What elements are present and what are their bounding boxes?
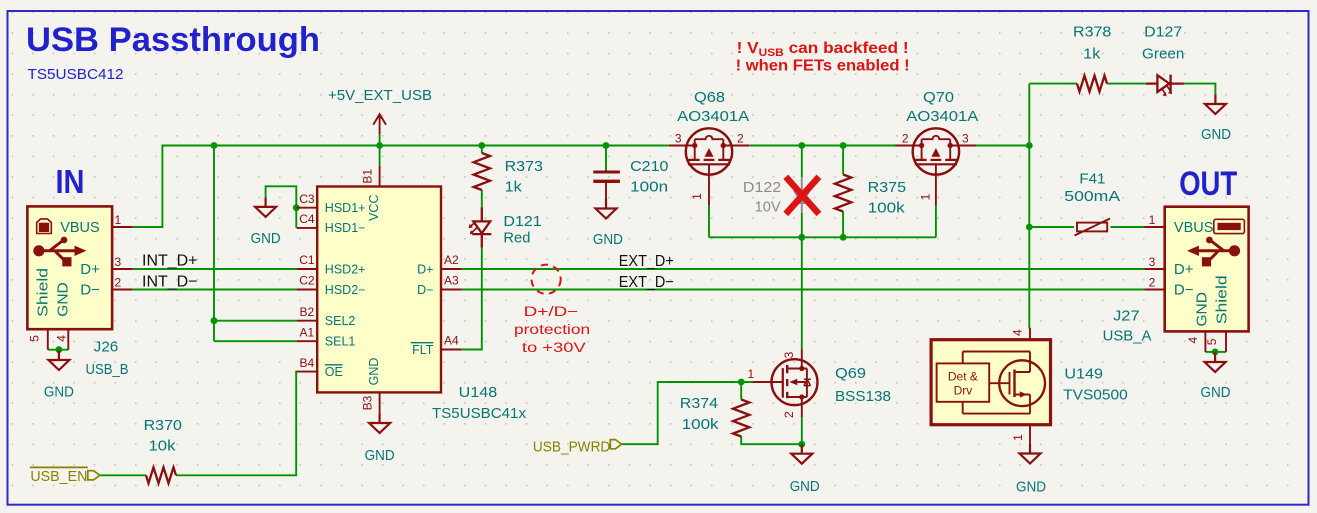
J26 pin numbers [28, 213, 122, 342]
svg-text:A4: A4 [444, 334, 459, 348]
svg-text:10k: 10k [149, 437, 177, 454]
svg-text:INT_D−: INT_D− [142, 273, 198, 290]
J26 pin names [35, 219, 101, 317]
svg-text:C3: C3 [299, 192, 315, 206]
wire USB_EN to R370 [100, 474, 146, 476]
IC U149 TVS body [931, 328, 1128, 451]
U148 pin B3 GND stub [379, 392, 381, 413]
J27 pin numbers [1149, 213, 1219, 345]
junction gate rail / R375 [840, 234, 847, 241]
svg-text:Drv: Drv [954, 384, 973, 398]
svg-text:TS5USBC41x: TS5USBC41x [432, 405, 526, 422]
svg-text:100n: 100n [630, 178, 668, 195]
svg-text:C210: C210 [630, 158, 668, 175]
wire F41 to J27 VBUS [1111, 226, 1145, 228]
svg-text:3: 3 [962, 132, 969, 146]
red note D+/D- protection to +30V [514, 304, 590, 355]
wire INT_D+ [133, 268, 297, 270]
svg-text:4: 4 [1186, 337, 1200, 344]
svg-text:3: 3 [675, 132, 682, 146]
svg-text:SEL2: SEL2 [325, 314, 356, 328]
hier label USB_PWRD [533, 438, 622, 455]
wire R374 bottom to source [741, 436, 802, 444]
J26 pin stubs [112, 227, 133, 290]
wire D122 bottom to rail [801, 213, 803, 237]
transistor Q69 [748, 349, 892, 418]
svg-text:Red: Red [503, 229, 530, 246]
svg-text:EXT_D−: EXT_D− [619, 274, 674, 291]
U148 GND symbol below B3 [369, 414, 390, 434]
svg-text:TVS0500: TVS0500 [1063, 386, 1128, 403]
resistor R378 [1073, 24, 1111, 92]
svg-text:2: 2 [902, 132, 909, 146]
U148 OE overline [325, 364, 343, 366]
svg-text:AO3401A: AO3401A [677, 108, 749, 125]
svg-text:Q70: Q70 [923, 89, 954, 106]
svg-text:GND: GND [1201, 126, 1231, 143]
power symbol +5V_EXT_USB [328, 87, 432, 135]
svg-text:500mA: 500mA [1064, 188, 1120, 205]
wire to SEL2 pin B2 [214, 320, 297, 322]
svg-text:Shield: Shield [35, 268, 52, 317]
svg-text:D+: D+ [1174, 261, 1194, 278]
svg-text:GND: GND [44, 384, 74, 401]
junction VBUS rail / right riser [1026, 142, 1033, 149]
svg-text:GND: GND [55, 282, 72, 317]
svg-text:2: 2 [115, 276, 122, 290]
IC U148 body [317, 187, 441, 393]
svg-text:C1: C1 [299, 253, 315, 267]
wire R374 top [740, 382, 742, 400]
wire FET gate bottom rail [709, 236, 936, 238]
svg-text:1: 1 [748, 367, 755, 381]
U148 FLT overline [411, 342, 434, 344]
svg-text:U149: U149 [1064, 366, 1103, 383]
svg-text:IN: IN [56, 163, 85, 200]
diode D121 LED red [469, 207, 542, 248]
wire to SEL1 pin A1 [214, 340, 297, 342]
svg-text:U148: U148 [459, 384, 498, 401]
J27 USB trident icon mirrored [1187, 237, 1240, 267]
svg-text:100k: 100k [682, 416, 720, 433]
svg-text:4: 4 [55, 335, 69, 342]
resistor R374 [680, 395, 750, 437]
svg-text:FLT: FLT [412, 343, 434, 357]
svg-text:1k: 1k [505, 178, 523, 195]
svg-text:1: 1 [919, 193, 933, 200]
U148 pin numbers [299, 169, 459, 411]
resistor R370 [144, 417, 182, 484]
wire D127 to GND [1184, 84, 1216, 95]
svg-text:R378: R378 [1073, 24, 1111, 41]
capacitor C210 [593, 158, 668, 199]
svg-text:HSD2−: HSD2− [325, 283, 366, 297]
wire EXT_D+ [462, 268, 1145, 270]
svg-text:B1: B1 [361, 169, 375, 184]
junction SEL2 [211, 317, 218, 324]
svg-text:D127: D127 [1144, 24, 1182, 41]
GND symbol below U149 [1020, 444, 1041, 464]
svg-text:D121: D121 [503, 213, 541, 230]
svg-text:Q69: Q69 [835, 365, 866, 382]
junction Q69 gate / R374 [738, 379, 745, 386]
GND symbol near C3 C4 [255, 197, 276, 217]
svg-text:2: 2 [737, 132, 744, 146]
svg-text:GND: GND [1016, 479, 1046, 496]
svg-text:A2: A2 [444, 253, 459, 267]
svg-text:GND: GND [367, 358, 381, 386]
svg-text:F41: F41 [1079, 171, 1105, 188]
GND symbol right of D127 [1205, 95, 1226, 115]
J27 USB-A plug icon [1214, 219, 1245, 233]
J26 GND symbol [48, 351, 69, 371]
svg-text:GND: GND [251, 230, 281, 247]
svg-text:+5V_EXT_USB: +5V_EXT_USB [328, 87, 432, 104]
wire riser to fuse F41 [1029, 226, 1074, 228]
svg-text:R375: R375 [868, 179, 906, 196]
svg-text:! when FETs enabled !: ! when FETs enabled ! [736, 58, 910, 75]
svg-text:A1: A1 [300, 325, 315, 339]
wire R378 to D127 [1107, 83, 1146, 85]
wire Q69 source to GND junction [801, 417, 803, 444]
svg-text:INT_D+: INT_D+ [142, 253, 198, 270]
wire USB_PWRD to Q69 gate [622, 382, 754, 444]
junction C3 C4 [293, 204, 300, 211]
svg-text:1: 1 [1149, 213, 1156, 227]
resistor R373 [474, 153, 543, 195]
wire J27 gnd pins join [1205, 351, 1226, 353]
svg-text:3: 3 [782, 351, 796, 358]
wire C210 branch [605, 146, 607, 171]
svg-text:3: 3 [1149, 255, 1156, 269]
svg-text:B4: B4 [300, 356, 315, 370]
junction VBUS rail / R373 [478, 142, 485, 149]
J26 USB trident icon [33, 237, 86, 267]
GND symbol below Q69 [791, 444, 812, 464]
junction Q69 source / R374 [798, 441, 805, 448]
dashed circle D+/D- protection [532, 265, 561, 294]
svg-text:EXT_D+: EXT_D+ [619, 253, 674, 270]
svg-text:C2: C2 [299, 274, 315, 288]
svg-text:2: 2 [782, 411, 796, 418]
wire J26 gnd pins join [48, 349, 69, 351]
svg-text:J27: J27 [1113, 307, 1140, 324]
svg-text:SEL1: SEL1 [325, 335, 356, 349]
svg-text:Q68: Q68 [694, 89, 725, 106]
J27 pin stubs [1144, 227, 1165, 290]
junction VBUS rail / VCC [376, 142, 383, 149]
svg-text:VBUS: VBUS [60, 219, 100, 236]
wire EXT_D- [462, 289, 1145, 291]
wire riser to R378 [1029, 83, 1077, 85]
svg-text:R373: R373 [505, 158, 543, 175]
wire D121 to FLT pin A4 [462, 248, 482, 350]
svg-text:D−: D− [80, 281, 100, 298]
DNP red X over D122 [786, 177, 819, 214]
svg-text:GND: GND [593, 231, 623, 248]
svg-text:OUT: OUT [1179, 165, 1237, 203]
wire R370 to OE pin B4 [176, 372, 297, 476]
junction gate rail / D122 [798, 234, 805, 241]
svg-text:B3: B3 [361, 395, 375, 410]
wire +5V to VCC pin B1 [379, 135, 381, 166]
svg-text:4: 4 [1010, 329, 1024, 336]
svg-text:5: 5 [1205, 338, 1219, 345]
junction VBUS rail / C210 [603, 142, 610, 149]
svg-text:AO3401A: AO3401A [906, 108, 978, 125]
svg-text:OE: OE [325, 365, 343, 379]
svg-text:BSS138: BSS138 [835, 388, 891, 405]
hier label USB_EN with overline [30, 467, 100, 485]
junction J26 gnd pins [56, 346, 63, 353]
svg-text:1: 1 [690, 193, 704, 200]
svg-text:USB Passthrough: USB Passthrough [26, 21, 320, 59]
svg-text:to +30V: to +30V [522, 340, 586, 355]
svg-text:USB_A: USB_A [1103, 328, 1152, 345]
svg-text:GND: GND [365, 447, 395, 464]
wire R373 branch [481, 146, 483, 154]
J27 pin names [1174, 219, 1231, 327]
wire Q68 gate drop [708, 205, 710, 237]
svg-text:D+: D+ [417, 262, 433, 276]
svg-text:1: 1 [115, 213, 122, 227]
wire R375 bottom [842, 211, 844, 237]
fuse F41 [1064, 171, 1120, 236]
svg-text:Shield: Shield [1213, 275, 1230, 324]
transistor Q68 [669, 128, 750, 205]
junction VBUS rail / R375 [840, 142, 847, 149]
U148 pin B1 VCC stub [379, 166, 381, 187]
svg-text:USB_PWRD: USB_PWRD [533, 438, 611, 455]
wire R373 to D121 [481, 190, 483, 208]
junction VBUS rail / D122 [798, 142, 805, 149]
svg-text:B2: B2 [300, 305, 315, 319]
svg-text:Det &: Det & [948, 370, 978, 384]
resistor R375 [835, 175, 906, 217]
wire INT_D- [133, 289, 297, 291]
svg-text:D−: D− [1174, 281, 1194, 298]
junction riser / F41 [1026, 224, 1033, 231]
J27 GND symbol [1205, 353, 1226, 373]
wire VBUS rail from J26 to right riser [133, 146, 669, 228]
svg-text:HSD1−: HSD1− [325, 221, 366, 235]
U148 pin names [325, 194, 434, 385]
connector J27 body [1165, 207, 1249, 332]
U148 right pin stubs [441, 269, 462, 350]
svg-text:R370: R370 [144, 417, 182, 434]
svg-text:100k: 100k [868, 200, 906, 217]
svg-text:GND: GND [790, 478, 820, 495]
svg-text:HSD1+: HSD1+ [325, 201, 366, 215]
svg-text:GND: GND [1194, 292, 1211, 327]
svg-text:TS5USBC412: TS5USBC412 [28, 66, 124, 83]
svg-text:R374: R374 [680, 395, 718, 412]
wire Q70 gate drop [935, 205, 937, 237]
svg-text:HSD2+: HSD2+ [325, 262, 366, 276]
svg-text:1: 1 [1011, 434, 1025, 441]
svg-text:D−: D− [417, 283, 433, 297]
diode D127 LED green [1142, 24, 1184, 97]
svg-text:C4: C4 [299, 212, 315, 226]
svg-text:VCC: VCC [367, 194, 381, 220]
svg-text:5: 5 [28, 335, 42, 342]
svg-text:D+: D+ [80, 261, 100, 278]
wire from Q70 to right riser [976, 145, 1029, 147]
transistor Q70 [895, 128, 976, 205]
wire D122 top [801, 146, 803, 178]
wire C3 C4 to GND [266, 186, 297, 228]
GND symbol below C210 [596, 199, 617, 219]
svg-text:protection: protection [514, 322, 590, 337]
wire right riser [1028, 84, 1030, 329]
svg-text:A3: A3 [444, 274, 459, 288]
svg-text:GND: GND [1201, 384, 1231, 401]
connector J26 body [27, 206, 112, 329]
wire SEL riser [213, 146, 215, 342]
svg-text:VBUS: VBUS [1174, 219, 1214, 236]
junction J27 gnd pins [1212, 349, 1219, 356]
svg-text:USB_EN: USB_EN [30, 468, 87, 485]
svg-text:2: 2 [1149, 276, 1156, 290]
wire rail to Q69 drain [801, 237, 803, 349]
svg-text:J26: J26 [94, 338, 119, 355]
svg-text:10V: 10V [755, 199, 781, 216]
svg-text:Green: Green [1142, 45, 1184, 62]
svg-text:3: 3 [115, 255, 122, 269]
svg-text:D+/D−: D+/D− [524, 304, 579, 319]
J26 USB-B plug icon [37, 219, 52, 234]
diode D122 DNP gray [794, 177, 810, 213]
U148 left pin stubs [297, 208, 318, 372]
wire R375 top [842, 146, 844, 175]
junction VBUS rail / SEL riser [211, 142, 218, 149]
wire between Q68 and Q70 [750, 145, 896, 147]
svg-text:USB_B: USB_B [86, 361, 129, 378]
svg-text:1k: 1k [1083, 45, 1101, 62]
svg-text:D122: D122 [743, 179, 781, 196]
